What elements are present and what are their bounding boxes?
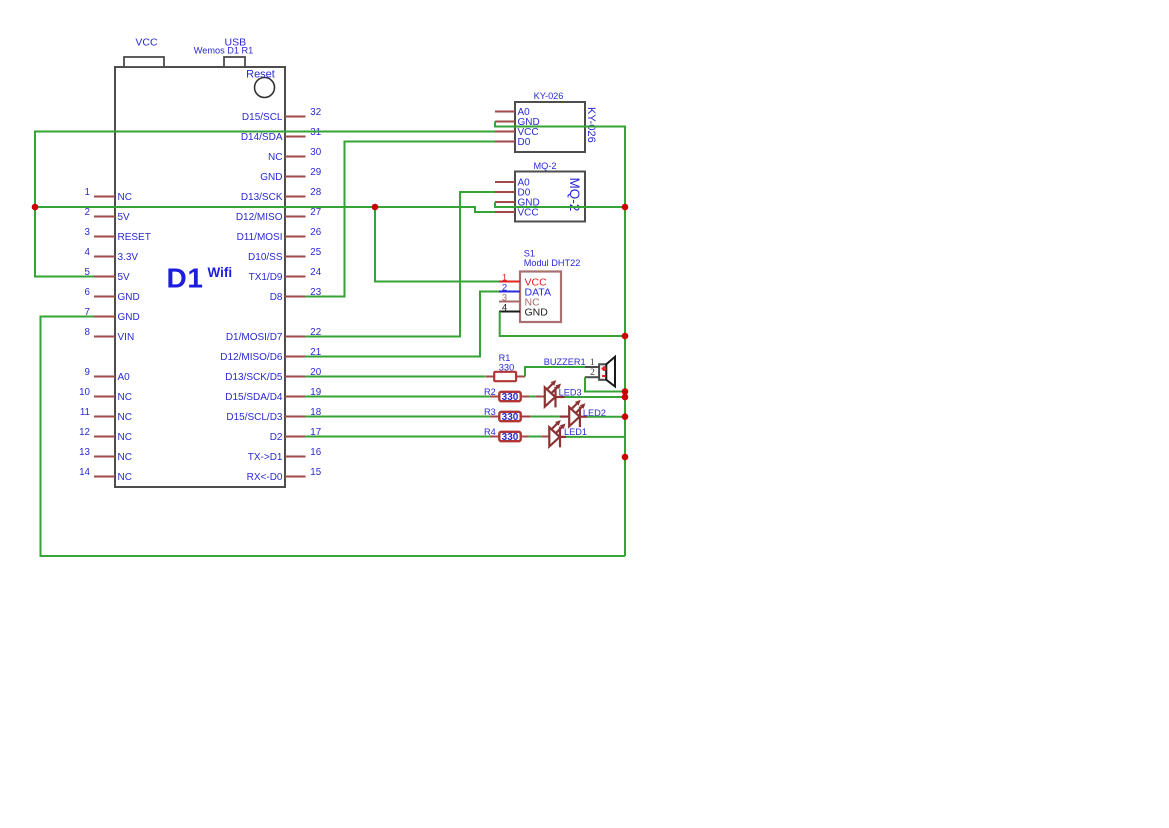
svg-text:5V: 5V (118, 212, 131, 223)
svg-text:1: 1 (85, 187, 90, 198)
label LED2 (583, 408, 606, 418)
svg-text:GND: GND (118, 312, 140, 323)
wire 5V junction to DHT22 VCC (375, 207, 499, 282)
pin MQ-2 D0 (495, 188, 531, 199)
node GND junction at DHT row (622, 333, 629, 340)
pin 2 DATA (DHT22) (499, 283, 551, 299)
wire D7 (pin 22) to MQ-2 D0 (305, 192, 495, 337)
wire D4 (pin 19) to R2 (305, 396, 490, 398)
svg-text:D14/SDA: D14/SDA (241, 132, 283, 143)
pin 17 D2 (270, 427, 322, 443)
wire MQ-2 GND to GND rail (495, 202, 625, 207)
wire D6 (pin 21) to DHT22 DATA (305, 292, 499, 357)
pin 12 NC (79, 427, 132, 443)
svg-text:GND: GND (525, 306, 549, 318)
label VCC (135, 37, 158, 49)
label 330 (R4 value) (502, 432, 519, 443)
pin 18 D15/SCL/D3 (226, 407, 321, 423)
svg-text:D15/SCL/D3: D15/SCL/D3 (226, 412, 283, 423)
resistor R4 330 (490, 432, 521, 441)
svg-text:D0: D0 (518, 137, 531, 148)
resistor R2 330 (490, 392, 521, 401)
svg-text:D15/SDA/D4: D15/SDA/D4 (225, 392, 283, 403)
svg-text:NC: NC (118, 432, 132, 443)
svg-text:MQ-2: MQ-2 (534, 161, 557, 171)
svg-text:VCC: VCC (135, 37, 158, 49)
node GND junction LED3 (622, 394, 629, 401)
label LED3 (559, 387, 582, 397)
label R2 (484, 387, 496, 397)
label R4 (484, 427, 496, 437)
pin 9 A0 (85, 367, 131, 383)
svg-text:27: 27 (310, 207, 321, 218)
svg-text:A0: A0 (118, 372, 131, 383)
svg-text:D12/MISO: D12/MISO (236, 212, 283, 223)
label MQ-2 title (534, 161, 557, 171)
node 5V junction mid (372, 204, 379, 211)
svg-text:D8: D8 (270, 292, 283, 303)
pin 25 D10/SS (248, 247, 322, 263)
svg-text:Wifi: Wifi (208, 265, 233, 280)
label Reset (246, 68, 275, 80)
label Wemos D1 R1 (194, 46, 254, 56)
board U1 Wemos D1 R1 outline (115, 67, 285, 487)
label BUZZER1 (544, 357, 586, 367)
label USB (225, 37, 247, 49)
label KY-026 rotated (585, 107, 597, 143)
svg-text:16: 16 (310, 447, 321, 458)
pin 4 3.3V (85, 247, 139, 263)
lead R4 right (521, 436, 550, 438)
wire LED3 cathode to GND rail (565, 396, 626, 398)
svg-text:D1: D1 (167, 263, 204, 294)
svg-text:D11/MOSI: D11/MOSI (237, 232, 283, 243)
svg-text:KY-026: KY-026 (585, 107, 597, 143)
wire LED2 cathode to GND rail (587, 416, 625, 418)
pin 29 GND (260, 167, 321, 183)
svg-text:25: 25 (310, 247, 321, 258)
svg-text:32: 32 (310, 107, 321, 118)
label 330 (R3 value) (502, 412, 519, 423)
svg-text:11: 11 (80, 407, 90, 418)
svg-text:330: 330 (502, 432, 519, 443)
svg-text:5V: 5V (118, 272, 131, 283)
svg-text:30: 30 (310, 147, 321, 158)
svg-text:D13/SCK/D5: D13/SCK/D5 (225, 372, 283, 383)
pin KY-026 A0 (495, 107, 530, 118)
label R3 (484, 407, 496, 417)
wire D8 to KY-026 D0 (305, 142, 495, 297)
pin 19 D15/SDA/D4 (225, 387, 321, 403)
svg-text:Wemos D1 R1: Wemos D1 R1 (194, 46, 254, 56)
svg-text:10: 10 (79, 387, 90, 398)
svg-text:TX->D1: TX->D1 (248, 452, 283, 463)
label 330 (R1 value) (499, 363, 515, 373)
label 330 (R2 value) (502, 392, 519, 403)
svg-text:GND: GND (260, 172, 282, 183)
pin 32 D15/SCL (242, 107, 321, 123)
svg-text:29: 29 (310, 167, 321, 178)
svg-text:3.3V: 3.3V (118, 252, 139, 263)
lead R2 to LED3 (521, 396, 545, 398)
wire R1 to buzzer + (525, 367, 585, 377)
svg-text:D12/MISO/D6: D12/MISO/D6 (220, 352, 283, 363)
USB connector tab (224, 57, 245, 67)
node GND junction at MQ-2 row (622, 204, 629, 211)
label KY-026 title (534, 91, 564, 101)
resistor R1 (485, 372, 525, 381)
wire R2 to LED3 anode (529, 396, 536, 398)
pin 23 D8 (270, 287, 322, 303)
svg-text:D15/SCL: D15/SCL (242, 112, 283, 123)
svg-text:4: 4 (502, 303, 507, 314)
pin KY-026 D0 (495, 137, 531, 148)
wire D2 (pin 17) to R4 (305, 436, 490, 438)
svg-text:NC: NC (118, 452, 132, 463)
label Modul DHT22 (524, 258, 581, 268)
node GND junction LED2 (622, 413, 629, 420)
buzzer BUZZER1 (585, 357, 615, 387)
label S1 (524, 249, 535, 259)
svg-text:NC: NC (118, 412, 132, 423)
resistor R3 330 (490, 412, 521, 421)
svg-text:24: 24 (310, 267, 321, 278)
svg-text:8: 8 (85, 327, 91, 338)
pin 7 GND (85, 307, 140, 323)
wire buzzer - to GND rail (585, 377, 625, 391)
wire LED1 cathode to GND rail (566, 436, 625, 438)
pin 5 5V (85, 267, 131, 283)
pin MQ-2 GND (495, 198, 540, 209)
label LED1 (564, 427, 587, 437)
pin 31 D14/SDA (241, 127, 321, 143)
pin 6 GND (85, 287, 140, 303)
wire R3 to LED2 anode (531, 416, 560, 418)
svg-text:S1: S1 (524, 249, 535, 259)
pin 11 NC (80, 407, 132, 423)
lead LED3 cathode (556, 396, 565, 398)
svg-text:VIN: VIN (118, 332, 135, 343)
svg-text:6: 6 (85, 287, 91, 298)
svg-text:GND: GND (118, 292, 140, 303)
svg-text:KY-026: KY-026 (534, 91, 564, 101)
node GND junction LED1 rail (622, 454, 629, 461)
svg-text:LED3: LED3 (559, 387, 582, 397)
pin 3 NC (DHT22) (499, 293, 540, 309)
pin 30 NC (268, 147, 322, 163)
pin 8 VIN (85, 327, 135, 343)
sensor module MQ-2 (515, 172, 585, 222)
pin 1 VCC (DHT22) (499, 273, 547, 289)
pin 4 GND (DHT22) (499, 303, 548, 319)
lead LED1 cathode (560, 436, 566, 438)
svg-text:3: 3 (85, 227, 91, 238)
pin KY-026 VCC (495, 127, 539, 138)
pin 10 NC (79, 387, 132, 403)
VCC connector tab (124, 57, 164, 67)
pin 13 NC (79, 447, 132, 463)
svg-text:TX1/D9: TX1/D9 (249, 272, 283, 283)
pin 14 NC (79, 467, 132, 483)
pin 3 RESET (85, 227, 151, 243)
pin 2 (buzzer -) (590, 368, 595, 378)
svg-text:VCC: VCC (518, 208, 539, 219)
LED LED3 (545, 381, 561, 408)
sensor module KY-026 (515, 102, 585, 152)
svg-text:2: 2 (590, 368, 595, 378)
svg-text:BUZZER1: BUZZER1 (544, 357, 586, 367)
pin MQ-2 A0 (495, 178, 530, 189)
pin 28 D13/SCK (241, 187, 322, 203)
label R1 (499, 353, 511, 363)
wire D5 (pin 20) to R1 (305, 376, 485, 378)
wire D3 (pin 18) to R3 (305, 416, 490, 418)
svg-text:26: 26 (310, 227, 321, 238)
wire R4 to LED1 anode (529, 436, 542, 438)
pin MQ-2 VCC (495, 208, 539, 219)
svg-text:LED1: LED1 (564, 427, 587, 437)
svg-text:330: 330 (502, 412, 519, 423)
svg-text:NC: NC (118, 192, 132, 203)
svg-text:D13/SCK: D13/SCK (241, 192, 283, 203)
pin 20 D13/SCK/D5 (225, 367, 321, 383)
svg-text:D2: D2 (270, 432, 283, 443)
pin 26 D11/MOSI (237, 227, 322, 243)
lead LED2 anode (560, 416, 570, 418)
svg-text:12: 12 (79, 427, 90, 438)
pin 15 RX<-D0 (247, 467, 322, 483)
svg-text:1: 1 (590, 358, 595, 368)
svg-text:RX<-D0: RX<-D0 (247, 472, 283, 483)
LED LED2 (569, 401, 585, 428)
svg-text:NC: NC (118, 472, 132, 483)
svg-text:RESET: RESET (118, 232, 151, 243)
wire 5V: KY-026 VCC to D1 pin 5 (5V) (35, 132, 495, 277)
svg-text:D10/SS: D10/SS (248, 252, 283, 263)
pin 1 (buzzer +) (590, 358, 595, 368)
svg-text:NC: NC (118, 392, 132, 403)
node GND junction buzzer (622, 388, 629, 395)
pin 16 TX->D1 (248, 447, 322, 463)
svg-text:2: 2 (85, 207, 90, 218)
svg-text:14: 14 (79, 467, 90, 478)
pin KY-026 GND (495, 117, 540, 128)
svg-text:15: 15 (310, 467, 321, 478)
wire D1 GND (pin 7) to bottom GND rail (41, 317, 626, 557)
wire 5V rail to MQ-2 VCC (35, 207, 495, 212)
pin 1 NC (85, 187, 132, 203)
svg-text:Modul DHT22: Modul DHT22 (524, 258, 581, 268)
svg-text:D1/MOSI/D7: D1/MOSI/D7 (226, 332, 283, 343)
wire KY-026 GND down right-side GND rail (495, 122, 625, 557)
board title D1 Wifi (167, 263, 233, 294)
lead LED2 cathode (580, 416, 587, 418)
reset button circle (255, 78, 275, 98)
pin 2 5V (85, 207, 131, 223)
sensor module S1 Modul DHT22 (520, 272, 561, 323)
svg-text:28: 28 (310, 187, 321, 198)
svg-text:330: 330 (499, 363, 515, 373)
label MQ-2 rotated (567, 178, 582, 212)
svg-text:NC: NC (268, 152, 282, 163)
svg-text:9: 9 (85, 367, 90, 378)
lead R3 right (521, 416, 531, 418)
node 5V junction left (32, 204, 39, 211)
svg-text:R1: R1 (499, 353, 511, 363)
pin 21 D12/MISO/D6 (220, 347, 321, 363)
LED LED1 (549, 421, 565, 448)
wire DHT22 GND to GND rail (500, 312, 625, 337)
svg-text:4: 4 (85, 247, 91, 258)
pin 22 D1/MOSI/D7 (226, 327, 321, 343)
svg-text:330: 330 (502, 392, 519, 403)
svg-text:13: 13 (79, 447, 90, 458)
pin 24 TX1/D9 (249, 267, 322, 283)
pin 27 D12/MISO (236, 207, 321, 223)
